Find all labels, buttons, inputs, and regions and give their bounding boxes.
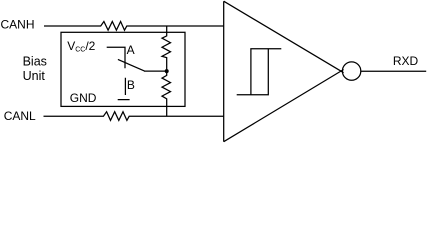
svg-text:CANH: CANH (1, 18, 35, 32)
svg-text:GND: GND (70, 91, 97, 105)
svg-text:CANL: CANL (4, 109, 36, 123)
svg-text:Bias: Bias (23, 55, 47, 69)
svg-text:VCC/2: VCC/2 (67, 39, 95, 54)
svg-text:Unit: Unit (23, 69, 46, 83)
svg-text:B: B (127, 78, 135, 92)
svg-text:RXD: RXD (393, 54, 419, 68)
svg-text:A: A (127, 43, 135, 57)
